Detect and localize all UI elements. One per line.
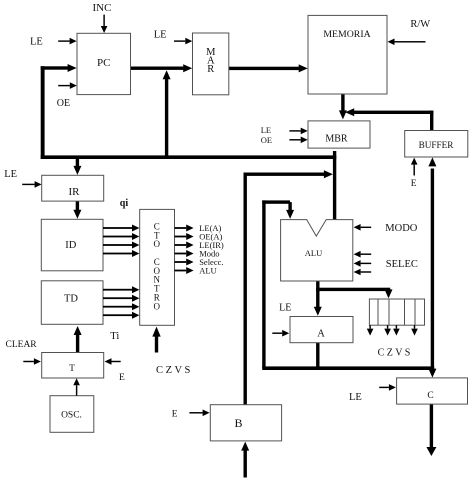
wire: ALU output branch right into flags register (thick arrow down) — [316, 288, 392, 299]
wire: bus branch up joining PC-MAR line (thick arrow up) — [163, 70, 171, 157]
block BUFFER — [405, 131, 468, 158]
svg-text:T: T — [69, 364, 75, 374]
flag bit output arrow 2 — [384, 325, 391, 335]
control signal LE arrow into PC — [58, 38, 76, 45]
svg-text:ALU: ALU — [305, 248, 322, 258]
signal ID to control unit arrow 4 — [103, 250, 139, 257]
signal TD to control unit arrow 1 — [103, 286, 139, 293]
svg-text:LE: LE — [30, 37, 43, 48]
svg-text:LE: LE — [154, 30, 167, 41]
flag bit output arrow 4 — [411, 325, 418, 335]
wire: MBR down into ALU right input — [333, 151, 336, 220]
label SELEC — [386, 259, 418, 270]
flag bit output arrow 1 — [367, 325, 374, 335]
svg-text:SELEC: SELEC — [386, 259, 418, 270]
wire: PC output to MAR (thick arrow) — [130, 64, 192, 72]
block TD timing decoder — [41, 281, 103, 325]
svg-text:IR: IR — [69, 186, 81, 198]
svg-text:OE: OE — [57, 98, 70, 109]
wire: MAR output to MEMORIA (thick arrow) — [229, 64, 308, 72]
wire: BUFFER output up and left into memory data line (thick arrow left) — [345, 108, 433, 130]
control unit output arrow + label LE(IR) — [175, 240, 224, 250]
wire: bus up into BUFFER (thick arrow up) — [428, 157, 436, 368]
svg-text:A: A — [317, 329, 325, 340]
svg-text:BUFFER: BUFFER — [419, 140, 455, 150]
wire: CZVS flags feedback into control unit (thick arrow up) — [152, 327, 160, 353]
control signal LE arrow into A — [272, 330, 289, 337]
label LE (MBR) — [261, 125, 271, 135]
svg-text:E: E — [172, 410, 178, 420]
control signal E arrow into T right side — [105, 358, 121, 365]
control signal OE arrow into PC — [58, 82, 77, 89]
svg-text:OSC.: OSC. — [61, 411, 82, 421]
control unit output arrow + label Modo — [175, 249, 220, 259]
control unit output arrow + label Selecc. — [175, 257, 224, 267]
svg-text:C: C — [427, 391, 433, 401]
label LE (MAR) — [154, 30, 167, 41]
control signal LE arrow into C — [379, 384, 396, 391]
label C Z V S (control feedback) — [156, 365, 190, 376]
svg-text:INC: INC — [93, 2, 112, 14]
register C — [397, 378, 468, 404]
svg-text:B: B — [234, 416, 242, 430]
label CLEAR — [6, 340, 38, 350]
signal TD to control unit arrow 4 — [103, 312, 139, 319]
svg-text:qi: qi — [120, 198, 129, 209]
register A accumulator — [290, 317, 353, 343]
svg-text:C Z V S: C Z V S — [156, 365, 190, 376]
svg-text:TD: TD — [64, 294, 78, 305]
op block ALU (with top notch) — [281, 220, 353, 281]
wire: main horizontal bus into PC left (thick arrow) — [41, 64, 77, 72]
svg-text:ID: ID — [65, 240, 76, 251]
svg-text:O: O — [153, 239, 160, 249]
signal ID to control unit arrow 2 — [103, 233, 139, 240]
svg-text:E: E — [119, 373, 125, 383]
svg-text:MBR: MBR — [325, 133, 348, 144]
wire: IR to ID (thick arrow down) — [73, 201, 81, 219]
signal ID to control unit arrow 3 — [103, 242, 139, 249]
svg-text:E: E — [411, 179, 417, 189]
label C Z V S (flags) — [378, 347, 411, 358]
label E (B) — [172, 410, 178, 420]
register MAR — [193, 33, 229, 95]
control signal SELEC arrow 2 into ALU — [354, 260, 372, 267]
signal ID to control unit arrow 1 — [103, 225, 139, 232]
svg-text:LE: LE — [349, 392, 362, 403]
svg-text:ALU: ALU — [199, 266, 216, 276]
control unit output arrow + label ALU — [175, 266, 217, 276]
label OE (PC) — [57, 98, 70, 109]
wire: bottom result bus horizontal — [262, 366, 434, 370]
control signal INC arrow into PC top — [101, 15, 108, 33]
control signal E arrow into BUFFER — [411, 158, 418, 176]
wire: main internal bus horizontal — [41, 155, 337, 159]
register MBR — [308, 121, 370, 148]
signal TD to control unit arrow 3 — [103, 303, 139, 310]
control signal LE arrow into MAR — [174, 38, 192, 45]
register PC — [77, 33, 131, 94]
signal OSC to T arrow up — [73, 378, 80, 395]
block ID instruction decoder — [41, 219, 103, 270]
wire: A feedback loop up into ALU left input (thick arrow down) — [262, 200, 294, 368]
wire: bus drop into IR (thick arrow down) — [73, 157, 81, 175]
register IR — [42, 175, 104, 201]
wire: T to TD (thick arrow up) — [74, 326, 82, 353]
register B — [210, 405, 281, 441]
wire: left bus vertical from PC input down to main bus — [41, 66, 45, 159]
wire: ALU output down into A (thick arrow down) — [314, 281, 322, 316]
flag bit output arrow 3 — [393, 325, 400, 335]
wire: external input up into B register (thick arrow up) — [241, 442, 249, 478]
wire: B register up, right into ALU input line (thick arrow right) — [244, 170, 333, 405]
svg-text:R: R — [207, 64, 214, 75]
wire: bus down into C register (thick arrow down) — [428, 368, 436, 378]
label Ti — [110, 331, 119, 342]
svg-text:C Z V S: C Z V S — [378, 347, 411, 358]
label LE (IR) — [4, 169, 17, 180]
wire: C register output down (thick arrow) — [426, 404, 436, 456]
control signal SELEC arrow 3 into ALU — [354, 269, 372, 276]
wire: MEMORIA to MBR (thick arrow down) — [339, 94, 347, 119]
label E (BUFFER) — [411, 179, 417, 189]
label MODO — [385, 223, 418, 234]
svg-text:MODO: MODO — [385, 223, 418, 234]
control signal SELEC arrow 1 into ALU — [354, 251, 372, 258]
control signal E arrow into B — [189, 410, 209, 417]
control signal CLEAR arrow into T — [23, 358, 41, 365]
svg-text:OE: OE — [261, 135, 272, 145]
control signal LE arrow into IR — [22, 181, 41, 188]
control signal LE arrow into MBR — [289, 128, 307, 135]
signal TD to control unit arrow 2 — [103, 295, 139, 302]
control signal OE arrow into MBR — [289, 137, 307, 144]
svg-text:CLEAR: CLEAR — [6, 340, 38, 350]
label LE (PC) — [30, 37, 43, 48]
label LE (A) — [279, 302, 291, 313]
control signal MODO arrow into ALU — [354, 224, 372, 231]
svg-text:MEMORIA: MEMORIA — [323, 29, 370, 40]
label E (T) — [119, 373, 125, 383]
label R/W — [410, 19, 430, 30]
svg-text:R/W: R/W — [410, 19, 430, 30]
block CTO CONTROL control unit — [140, 209, 175, 325]
svg-text:LE: LE — [279, 302, 291, 313]
label INC — [93, 2, 112, 14]
register flags CZVS (4 cells) — [369, 299, 424, 325]
label OE (MBR) — [261, 135, 272, 145]
svg-text:LE: LE — [4, 169, 17, 180]
wire: A register output down to bottom bus — [316, 343, 319, 370]
control unit output arrow + label LE(A) — [175, 223, 222, 233]
svg-text:O: O — [153, 301, 160, 311]
label qi — [120, 198, 129, 209]
svg-text:Ti: Ti — [110, 331, 119, 342]
block MEMORIA — [308, 15, 387, 94]
register T timing counter — [42, 353, 104, 379]
control unit output arrow + label OE(A) — [175, 232, 223, 242]
block OSC oscillator — [50, 396, 94, 433]
svg-text:PC: PC — [97, 57, 110, 69]
svg-text:LE: LE — [261, 125, 271, 135]
label LE (C) — [349, 392, 362, 403]
control signal R/W arrow into MEMORIA — [388, 39, 426, 46]
